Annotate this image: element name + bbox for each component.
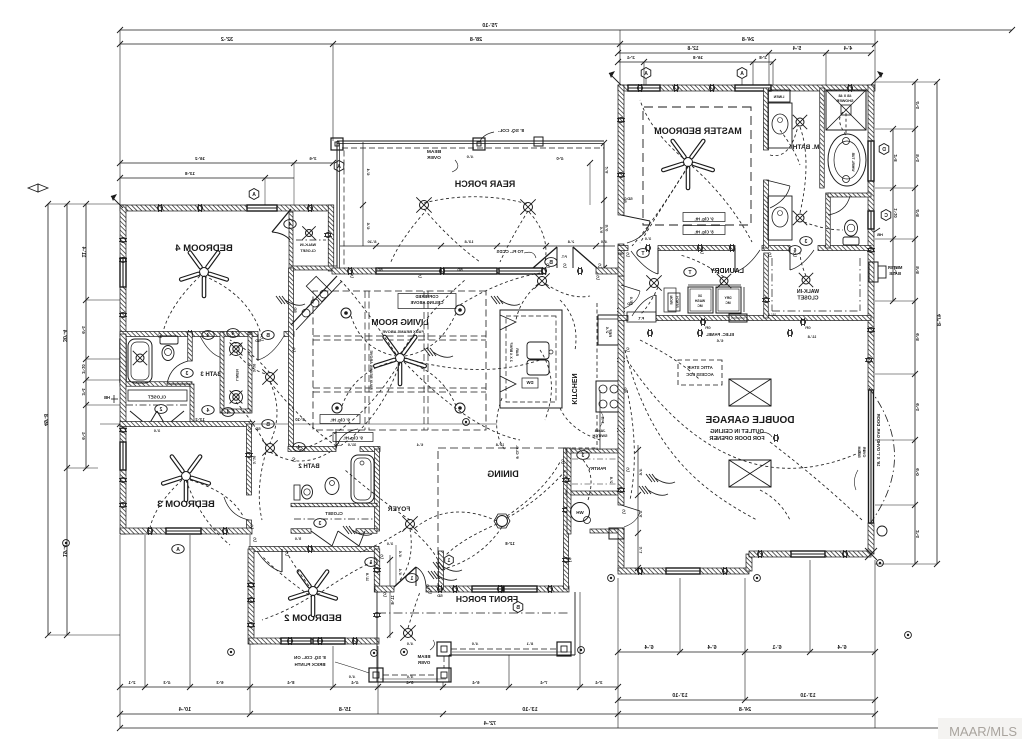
mbath: vanity2 <box>768 196 792 240</box>
dimension line: top overall <box>120 29 1012 31</box>
svg-text:S: S <box>561 460 565 466</box>
svg-text:12'-8: 12'-8 <box>687 46 698 52</box>
svg-text:1: 1 <box>447 558 450 564</box>
rear porch: beam over dashed <box>342 147 604 149</box>
bedroom2: east wall <box>374 549 380 592</box>
master: north wall <box>618 85 628 91</box>
garage: step wall <box>746 554 752 571</box>
bath2: door <box>336 429 358 449</box>
svg-text:A: A <box>337 164 341 170</box>
svg-text:13'-10: 13'-10 <box>800 693 815 699</box>
dining: wiring <box>440 527 502 570</box>
closet3: label box <box>128 390 187 401</box>
svg-text:6'-1: 6'-1 <box>772 645 781 651</box>
svg-text:2: 2 <box>159 407 162 413</box>
master: east windows <box>868 141 874 181</box>
svg-text:24'-8: 24'-8 <box>742 37 754 43</box>
svg-text:9' Clg. Ht.: 9' Clg. Ht. <box>694 217 713 222</box>
bath3: east wall <box>188 332 193 361</box>
garage: south wall left <box>618 568 666 574</box>
mbath: tags right <box>879 144 889 155</box>
attic stair <box>678 360 722 385</box>
svg-text:3'-10: 3'-10 <box>252 364 256 373</box>
master: outlets <box>673 85 678 90</box>
front porch: beam dashes <box>383 674 437 676</box>
wic: divider wall <box>764 253 769 318</box>
svg-text:MC: MC <box>697 304 703 308</box>
mbath: toilet <box>845 220 858 236</box>
hall: wiring <box>270 382 277 443</box>
svg-text:BATH 2: BATH 2 <box>298 464 320 470</box>
closet3: walls <box>190 384 194 424</box>
svg-text:B: B <box>266 333 270 339</box>
bedroom2: top door <box>281 549 283 572</box>
svg-text:SHOWER: SHOWER <box>836 99 853 103</box>
garage: south window right <box>791 551 825 557</box>
kitchen-garage wall <box>618 276 624 505</box>
garage: dim2 <box>599 390 601 450</box>
svg-text:MAAR/MLS: MAAR/MLS <box>949 724 1017 739</box>
svg-text:16'-2: 16'-2 <box>194 156 205 161</box>
dimension line: bottom garage <box>618 651 875 653</box>
svg-text:B: B <box>516 605 520 611</box>
bedroom3: south wall <box>120 528 252 534</box>
closet3: tag <box>155 405 167 414</box>
svg-text:CLOSET: CLOSET <box>300 249 316 253</box>
kitchen: outlets <box>618 307 623 312</box>
dining: outlets <box>452 586 457 591</box>
svg-text:2 X 4 BRKF: 2 X 4 BRKF <box>509 342 513 362</box>
mbath: door <box>766 180 790 186</box>
laundry: mud door <box>655 295 657 318</box>
bedroom3: wiring <box>190 480 243 516</box>
svg-text:3: 3 <box>185 371 188 377</box>
svg-text:6'-4: 6'-4 <box>836 645 846 651</box>
svg-text:3'-1: 3'-1 <box>638 547 643 555</box>
svg-text:3'-0: 3'-0 <box>154 429 160 433</box>
living: coffer inner lines <box>364 291 366 430</box>
svg-text:8' Clg. Ht.: 8' Clg. Ht. <box>694 230 713 235</box>
svg-text:LINEN: LINEN <box>235 369 239 381</box>
svg-text:5'-0: 5'-0 <box>295 537 301 541</box>
svg-text:6'-4: 6'-4 <box>915 403 920 411</box>
bedroom4: east wall <box>328 205 334 271</box>
extension lines: left <box>48 203 120 205</box>
svg-text:SD: SD <box>255 426 261 431</box>
hall: tags <box>262 331 274 340</box>
svg-text:FAUX BEAMS ABOVE: FAUX BEAMS ABOVE <box>369 350 373 390</box>
garage: xbox1 <box>729 379 771 406</box>
svg-text:REAR PORCH: REAR PORCH <box>455 179 516 189</box>
svg-text:3: 3 <box>581 453 584 459</box>
svg-text:3'-10: 3'-10 <box>81 364 86 374</box>
bath3: door <box>167 383 190 385</box>
mbath: vanity1 <box>768 103 792 148</box>
master: north windows <box>628 85 660 91</box>
svg-text:S: S <box>383 593 387 599</box>
svg-text:S: S <box>700 250 704 256</box>
elec panel <box>729 314 747 322</box>
svg-text:IRON: IRON <box>669 295 673 304</box>
svg-text:6'-3: 6'-3 <box>216 680 224 685</box>
pantry: south wall <box>590 529 621 533</box>
svg-text:4: 4 <box>288 222 291 228</box>
svg-text:6'-6: 6'-6 <box>716 338 724 343</box>
svg-text:4'-4: 4'-4 <box>915 101 920 109</box>
svg-text:COFFERED: COFFERED <box>415 294 438 299</box>
svg-text:D: D <box>882 147 886 153</box>
dimension line: bottom second <box>120 713 875 715</box>
garage: corner mark <box>865 548 877 560</box>
svg-text:T: T <box>688 270 691 276</box>
master: west wall <box>618 85 624 215</box>
svg-text:16' X 7' OVHD GAR. DOOR: 16' X 7' OVHD GAR. DOOR <box>876 414 881 467</box>
svg-text:5'-0: 5'-0 <box>604 225 609 233</box>
svg-text:OUTLET IN CEILING: OUTLET IN CEILING <box>710 429 764 435</box>
mbath: shower <box>826 90 866 130</box>
dimension line: top third <box>618 52 871 54</box>
gfi outlets below wall <box>700 319 705 324</box>
svg-text:P.T.: P.T. <box>561 255 567 259</box>
bedroom3: ceiling fan <box>182 472 191 481</box>
svg-text:BRICK PLINTH: BRICK PLINTH <box>295 662 326 667</box>
master: tray ceiling dashed <box>643 107 751 225</box>
svg-text:5'-4: 5'-4 <box>915 154 920 162</box>
garage: xbox2 <box>729 460 771 487</box>
homerun arrows <box>648 490 668 495</box>
svg-text:LINEN: LINEN <box>773 95 784 99</box>
dimension line: porch left vert <box>362 142 364 246</box>
bedroom2: wiring <box>262 556 309 595</box>
svg-text:S: S <box>158 334 162 340</box>
svg-text:4'-4: 4'-4 <box>351 680 359 685</box>
bath3: toilet <box>160 336 178 344</box>
svg-text:3'-0: 3'-0 <box>387 542 393 546</box>
svg-text:CLOSET: CLOSET <box>148 395 167 400</box>
svg-text:6'-6: 6'-6 <box>366 222 371 230</box>
svg-text:MASTER BEDROOM: MASTER BEDROOM <box>654 126 742 136</box>
mbath: garden tub <box>828 134 866 186</box>
walk-in closet 4: south wall <box>291 266 337 270</box>
svg-text:LAUNDRY: LAUNDRY <box>710 268 744 275</box>
svg-text:4'-4: 4'-4 <box>844 46 853 52</box>
svg-text:GFI: GFI <box>705 326 710 330</box>
svg-text:4: 4 <box>226 410 229 416</box>
dimension line: porch sill chain <box>340 245 615 247</box>
svg-text:GFI: GFI <box>805 326 810 330</box>
svg-text:16'-8: 16'-8 <box>692 55 703 60</box>
dimension line: top fourth <box>618 61 773 63</box>
svg-text:8'-4: 8'-4 <box>287 680 295 685</box>
svg-text:3'-10: 3'-10 <box>295 417 305 422</box>
svg-text:WALK-IN: WALK-IN <box>300 243 316 247</box>
kitchen: wiring <box>546 284 590 297</box>
bedroom4: ceiling fan <box>200 268 209 277</box>
front wall: east part <box>537 586 569 592</box>
foyer: east wall <box>439 551 444 589</box>
bath3: south wall <box>120 382 192 387</box>
svg-text:4'-0: 4'-0 <box>472 642 478 646</box>
svg-text:7'-4: 7'-4 <box>540 680 548 685</box>
garage: outlets <box>647 330 652 335</box>
wic: light <box>802 276 810 284</box>
svg-text:13'-8: 13'-8 <box>464 239 474 244</box>
pantry: west wall <box>567 448 571 534</box>
dimension line: bottom garage2 <box>618 699 875 701</box>
svg-text:3'-0: 3'-0 <box>645 237 651 241</box>
svg-text:A: A <box>740 71 744 77</box>
bedroom4: south wall <box>120 332 258 337</box>
svg-text:TO FL. CCDS: TO FL. CCDS <box>496 249 523 254</box>
extra wiring: hall web <box>270 452 330 461</box>
bedroom2: ceiling fan <box>309 587 318 596</box>
living: ceiling fan <box>396 354 405 363</box>
bedroom3: outlets <box>120 427 125 432</box>
svg-text:30'-4: 30'-4 <box>61 329 67 342</box>
bedroom4: outlets <box>157 205 162 210</box>
bedroom3: west window <box>120 442 126 470</box>
svg-text:MT: MT <box>617 252 623 256</box>
bedroom2: top wall <box>249 547 379 552</box>
svg-text:4'-6: 4'-6 <box>638 469 643 477</box>
bath2: toilet <box>294 485 300 500</box>
wic: door <box>789 248 791 270</box>
svg-text:METER: METER <box>888 265 903 270</box>
mbath: toilet room walls <box>826 193 831 248</box>
garage: south wall right <box>749 551 791 557</box>
dimension line: mid horizontal <box>100 423 497 425</box>
svg-text:2'-8: 2'-8 <box>893 154 898 162</box>
svg-text:FOR DOOR OPENER: FOR DOOR OPENER <box>709 436 764 442</box>
svg-text:10'-4: 10'-4 <box>178 707 191 713</box>
linen: walls <box>220 332 224 413</box>
svg-text:4'-4: 4'-4 <box>398 568 402 575</box>
svg-text:WALK-IN: WALK-IN <box>797 289 819 295</box>
svg-text:47'-8: 47'-8 <box>937 314 943 326</box>
extra wiring: living sweeps <box>300 362 400 450</box>
svg-text:5'-0: 5'-0 <box>629 297 633 303</box>
svg-text:2'-6: 2'-6 <box>605 327 609 333</box>
svg-text:8' SQ. COL.: 8' SQ. COL. <box>498 128 524 134</box>
front porch: wiring <box>408 592 420 628</box>
svg-text:4'-0: 4'-0 <box>466 154 474 159</box>
svg-text:24'-8: 24'-8 <box>739 707 751 713</box>
svg-text:BEAM: BEAM <box>427 149 441 155</box>
master: clg labels <box>683 213 725 222</box>
mbath: linen cab <box>768 90 790 102</box>
front door: leaf <box>394 567 416 587</box>
bath3: tub light <box>136 354 144 362</box>
dimension line: left outer <box>47 204 49 635</box>
svg-text:6'-4: 6'-4 <box>643 645 653 651</box>
svg-text:4'-0: 4'-0 <box>407 675 413 679</box>
living: coffered ceiling dashed rect <box>313 291 486 430</box>
svg-text:BEDROOM 4: BEDROOM 4 <box>175 243 233 254</box>
svg-text:HB: HB <box>104 395 110 400</box>
svg-text:S: S <box>626 468 630 474</box>
bedroom3: top wall <box>120 422 252 427</box>
svg-text:SD: SD <box>255 338 261 343</box>
master: tags <box>641 68 651 79</box>
dining: divider dashed <box>437 451 439 586</box>
svg-text:BENCH: BENCH <box>675 296 679 308</box>
hall: lights <box>266 373 275 382</box>
svg-text:BD: BD <box>293 307 297 313</box>
rear porch: light 2 <box>524 203 533 212</box>
living: wiring <box>351 316 396 356</box>
master: east wall <box>868 85 874 390</box>
svg-text:75'-10: 75'-10 <box>482 23 497 29</box>
walk-in closet 4: west wall <box>289 212 293 268</box>
svg-text:DOUBLE GARAGE: DOUBLE GARAGE <box>705 415 794 426</box>
living: nw diagonal feature <box>291 276 337 325</box>
rear porch: wiring <box>424 197 528 204</box>
svg-text:S: S <box>626 253 630 259</box>
bedroom2: south windows <box>281 638 311 644</box>
svg-text:2'-8: 2'-8 <box>759 55 767 60</box>
svg-text:72'-4: 72'-4 <box>483 721 496 727</box>
svg-text:48 X 48: 48 X 48 <box>838 94 851 98</box>
svg-text:BD: BD <box>247 332 253 336</box>
water heater <box>571 503 590 522</box>
dimension line: porch depth <box>603 143 605 268</box>
svg-text:OVER: OVER <box>427 155 441 161</box>
mbath: shower divider <box>822 187 871 189</box>
master: ceiling fan <box>684 158 693 167</box>
mbath: toilet room door <box>828 196 850 215</box>
svg-text:2'-4: 2'-4 <box>627 55 635 60</box>
garage: south window left <box>666 568 700 574</box>
hall tags 4 <box>202 331 214 340</box>
svg-text:BD: BD <box>377 268 383 272</box>
bedroom2: west wall <box>248 549 254 644</box>
svg-text:SD: SD <box>437 593 443 598</box>
laundry: washer <box>688 287 713 313</box>
svg-text:2'-1: 2'-1 <box>128 680 136 685</box>
svg-text:2'-8: 2'-8 <box>609 477 613 483</box>
front porch: columns <box>369 668 383 682</box>
svg-text:6'-4: 6'-4 <box>81 326 86 334</box>
front porch: light <box>404 629 413 638</box>
svg-text:WH: WH <box>576 510 584 515</box>
svg-text:DRY: DRY <box>724 296 732 300</box>
laundry: light <box>720 277 728 285</box>
laundry: bench <box>668 293 680 311</box>
hall door to garage <box>621 505 640 511</box>
svg-text:C: C <box>884 213 888 219</box>
kitchen: fridge <box>598 315 620 345</box>
dimension line: bed4 top <box>120 162 333 164</box>
pantry: divider wall <box>566 491 621 495</box>
dimension line: bottom overall <box>120 727 1012 729</box>
svg-text:4'-8: 4'-8 <box>915 209 920 217</box>
svg-text:OVER: OVER <box>417 660 430 665</box>
svg-text:4'-3: 4'-3 <box>163 680 171 685</box>
svg-text:LIVING ROOM: LIVING ROOM <box>371 317 428 327</box>
svg-text:4: 4 <box>231 331 234 337</box>
svg-text:S: S <box>292 458 296 464</box>
svg-text:9'-6: 9'-6 <box>599 227 603 233</box>
svg-text:2'-4: 2'-4 <box>915 530 920 538</box>
svg-text:6'-4: 6'-4 <box>706 645 716 651</box>
bedroom4: tag A <box>249 189 259 200</box>
svg-text:BD: BD <box>623 387 627 393</box>
svg-text:BATH 3: BATH 3 <box>200 372 222 378</box>
svg-text:5'-8: 5'-8 <box>915 266 920 274</box>
svg-text:6'-4: 6'-4 <box>416 443 423 447</box>
svg-text:BAR: BAR <box>515 348 519 356</box>
kitchen: range <box>596 381 620 412</box>
kitchen: island outline <box>500 310 562 408</box>
kitchen: counter dashed <box>596 303 598 378</box>
svg-text:ACCESS LOC: ACCESS LOC <box>686 372 713 377</box>
bedroom2: dim <box>389 555 391 638</box>
laundry: door from kitchen <box>621 285 640 291</box>
extension lines: bottom <box>119 535 121 728</box>
bedroom4: west window <box>120 258 126 287</box>
svg-text:9' CLG.: 9' CLG. <box>515 445 520 459</box>
svg-text:3'-4: 3'-4 <box>595 680 603 685</box>
front porch: edges <box>376 592 378 682</box>
porch gfis <box>228 649 235 656</box>
bath3 door <box>221 334 223 358</box>
walk-in closet 4: door <box>272 209 291 232</box>
svg-text:9' Clg. Ht.: 9' Clg. Ht. <box>330 418 350 423</box>
bedroom3: east wall <box>247 424 252 495</box>
svg-text:13'-10: 13'-10 <box>522 707 537 713</box>
svg-text:A: A <box>252 192 256 198</box>
rear porch: column C (small) <box>534 137 543 146</box>
svg-text:PANTRY: PANTRY <box>588 466 606 471</box>
front windows <box>472 586 503 592</box>
pantry: north wall <box>566 449 621 453</box>
svg-text:28'-8: 28'-8 <box>470 37 482 43</box>
master: west door <box>621 215 650 221</box>
bedroom3: east door <box>224 497 249 520</box>
dimension line: right inner <box>914 82 916 564</box>
bedroom3: west wall <box>120 334 126 534</box>
front porch: beam dashdot <box>377 612 570 614</box>
svg-text:S: S <box>598 264 602 270</box>
svg-text:12'-8: 12'-8 <box>496 443 505 447</box>
mbath: shower-tub west wall <box>820 88 825 188</box>
svg-text:OVER: OVER <box>862 446 866 457</box>
svg-text:S: S <box>350 274 354 280</box>
front wall: door-window part <box>426 586 472 592</box>
meter base <box>869 262 878 282</box>
svg-text:9' Clg. Ht.: 9' Clg. Ht. <box>343 436 363 441</box>
garage: ovhd door <box>869 390 874 523</box>
svg-text:FRONT PORCH: FRONT PORCH <box>456 594 518 604</box>
pantry wiring <box>583 460 591 500</box>
bedroom4: wiring <box>204 276 262 337</box>
bath2: closet south wall <box>291 529 311 534</box>
kitchen: island notches <box>500 315 516 330</box>
svg-text:S: S <box>418 274 422 280</box>
svg-text:S: S <box>596 276 600 282</box>
laundry: wiring <box>680 255 724 277</box>
svg-text:CLOSET: CLOSET <box>325 511 343 516</box>
mbath: lights <box>796 118 804 126</box>
linen: lights <box>230 343 243 356</box>
svg-text:1'-10: 1'-10 <box>893 208 898 218</box>
svg-text:S: S <box>622 510 626 516</box>
living: coffered note <box>398 294 456 309</box>
svg-text:6'-0: 6'-0 <box>915 468 920 476</box>
master: south door <box>734 248 736 272</box>
dining: chandelier <box>497 516 508 527</box>
svg-text:4'-0: 4'-0 <box>349 675 355 679</box>
